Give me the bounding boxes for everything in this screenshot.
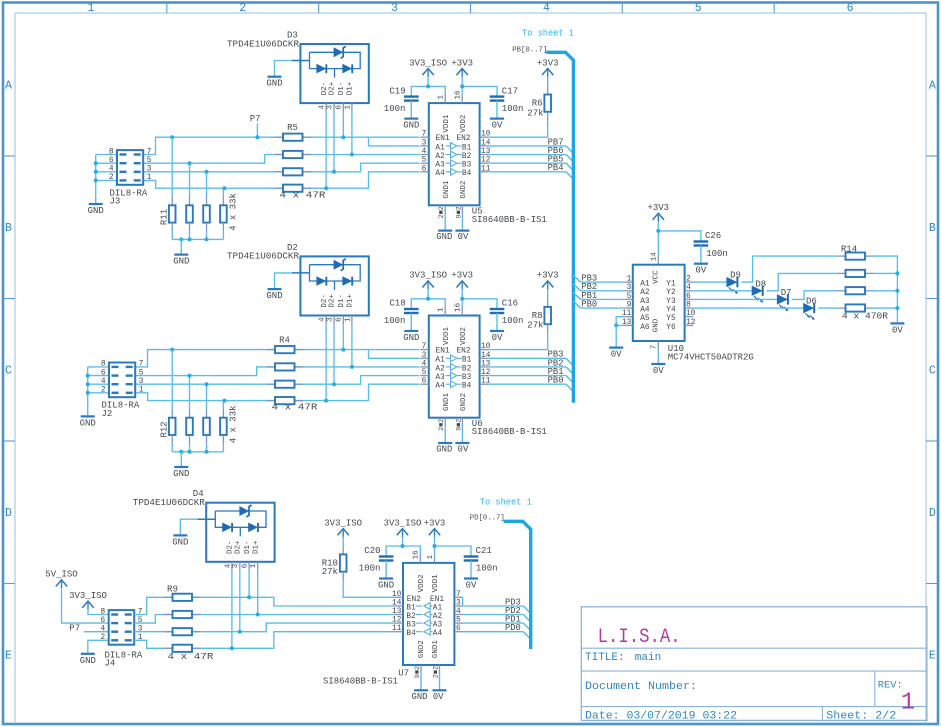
svg-text:C19: C19	[389, 86, 405, 96]
svg-text:EN1: EN1	[430, 596, 444, 604]
svg-text:1: 1	[627, 276, 632, 284]
resistor network R4 4 x 47R	[266, 349, 275, 351]
wire J4 pin3 row3 into U7 B3	[134, 623, 394, 632]
svg-text:D2+: D2+	[329, 294, 337, 308]
svg-text:C18: C18	[389, 299, 405, 309]
svg-text:8: 8	[101, 608, 106, 616]
svg-text:4: 4	[422, 360, 427, 368]
svg-text:+3V3: +3V3	[537, 271, 559, 281]
diodes inside D2	[316, 276, 326, 286]
svg-text:5: 5	[627, 293, 632, 301]
svg-text:1: 1	[344, 317, 352, 322]
svg-text:5: 5	[147, 157, 152, 165]
wire J4 pin2 to GND	[88, 640, 109, 653]
svg-text:Y1: Y1	[666, 281, 676, 289]
zener diode inside D2	[334, 260, 344, 270]
wire +3V3 to U5 pin16 and C17	[462, 86, 497, 96]
junction dots	[86, 374, 90, 378]
svg-text:U7: U7	[398, 668, 409, 678]
wire R6 to U5 EN2 pin10	[488, 120, 548, 137]
svg-text:2: 2	[101, 634, 106, 642]
svg-text:GND: GND	[266, 79, 282, 89]
D2 pin leads and numbers	[325, 316, 327, 325]
svg-text:27k: 27k	[527, 321, 543, 331]
svg-text:100n: 100n	[384, 104, 406, 114]
ground GND at D4	[180, 519, 197, 534]
svg-text:A5: A5	[640, 315, 650, 323]
svg-text:A4: A4	[435, 383, 445, 391]
isolator U7 SI8640BB-B-IS1	[403, 563, 454, 665]
svg-text:7: 7	[147, 148, 152, 156]
wire U10 A5 A6 tie to 0V	[616, 317, 624, 326]
svg-text:16: 16	[413, 550, 421, 560]
capacitor C16 100n	[490, 308, 505, 310]
svg-text:A1: A1	[435, 357, 445, 365]
wire J3 pin7 to row1	[143, 137, 419, 154]
connector J2 DIL8-RA	[109, 363, 135, 398]
svg-text:5: 5	[139, 369, 144, 377]
svg-text:3: 3	[422, 352, 427, 360]
svg-text:TPD4E1U06DCKR: TPD4E1U06DCKR	[227, 252, 300, 262]
svg-text:GND: GND	[653, 318, 661, 332]
svg-text:2: 2	[686, 276, 691, 284]
capacitor C19 100n	[411, 86, 445, 96]
svg-text:3: 3	[147, 166, 152, 174]
svg-text:5: 5	[422, 369, 427, 377]
svg-text:EN2: EN2	[457, 347, 471, 355]
wires D3 pins down to rows	[325, 112, 327, 188]
zener diode inside D3	[334, 47, 344, 57]
svg-text:VDD1: VDD1	[432, 574, 440, 593]
svg-text:7: 7	[456, 591, 461, 599]
svg-text:4: 4	[422, 148, 427, 156]
svg-text:R4: R4	[279, 336, 290, 346]
wires D2 pins down to rows	[325, 324, 327, 400]
svg-text:Y5: Y5	[666, 315, 676, 323]
svg-text:SI8640BB-B-IS1: SI8640BB-B-IS1	[472, 427, 547, 437]
svg-text:A2: A2	[435, 153, 445, 161]
resistor network R5 4 x 47R	[274, 136, 283, 138]
svg-text:+3V3: +3V3	[647, 203, 669, 213]
svg-text:1: 1	[147, 174, 152, 182]
wire row1 branch to U6 A1 pin3	[369, 350, 420, 359]
svg-text:0V: 0V	[892, 325, 903, 335]
svg-text:3: 3	[627, 284, 632, 292]
svg-text:GND2: GND2	[418, 640, 426, 658]
svg-text:A6: A6	[640, 324, 650, 332]
wire left pins to GND	[96, 154, 117, 156]
svg-text:E: E	[929, 650, 936, 663]
svg-text:PD0: PD0	[505, 623, 521, 633]
svg-text:GND: GND	[403, 333, 419, 343]
svg-text:GND: GND	[88, 206, 104, 216]
svg-text:GND: GND	[403, 121, 419, 131]
svg-text:main: main	[635, 652, 661, 664]
svg-text:4 x 470R: 4 x 470R	[842, 312, 889, 322]
svg-text:D1-: D1-	[338, 82, 346, 96]
resistor R10 27k	[342, 537, 344, 546]
svg-text:Y6: Y6	[666, 324, 676, 332]
svg-text:2: 2	[101, 387, 106, 395]
wires PB3-PB0 from bus to U10 inputs	[573, 275, 580, 282]
svg-text:C26: C26	[705, 231, 721, 241]
svg-text:16: 16	[455, 302, 463, 312]
svg-text:0V: 0V	[695, 266, 706, 276]
wire R8 to U6 EN2 pin10	[488, 333, 548, 350]
svg-text:8: 8	[686, 302, 691, 310]
svg-text:L.I.S.A.: L.I.S.A.	[598, 626, 681, 649]
capacitor C20 100n	[386, 546, 420, 557]
svg-text:4 x 47R: 4 x 47R	[272, 403, 319, 413]
svg-text:B4: B4	[406, 630, 416, 638]
svg-text:0V: 0V	[466, 581, 477, 591]
svg-text:D2-: D2-	[321, 294, 329, 308]
svg-text:10: 10	[481, 131, 491, 139]
connector J3 DIL8-RA	[117, 150, 143, 185]
svg-text:PB0: PB0	[581, 299, 597, 309]
svg-text:B2: B2	[462, 365, 472, 373]
svg-text:13: 13	[392, 608, 402, 616]
svg-text:100n: 100n	[706, 249, 728, 259]
isolator U6 SI8640BB-B-IS1	[429, 316, 480, 418]
svg-text:MC74VHCT50ADTR2G: MC74VHCT50ADTR2G	[668, 353, 754, 363]
svg-text:2: 2	[109, 174, 114, 182]
U7 GND 0V bottom grounds	[420, 674, 422, 690]
R12 bottom rail to GND	[172, 451, 223, 453]
svg-text:100n: 100n	[502, 316, 524, 326]
svg-text:7: 7	[139, 361, 144, 369]
svg-text:VCC: VCC	[653, 270, 661, 284]
svg-text:3: 3	[456, 600, 461, 608]
svg-text:B: B	[5, 222, 12, 235]
svg-text:5: 5	[695, 2, 702, 15]
svg-text:GND: GND	[80, 418, 96, 428]
svg-text:4: 4	[456, 608, 461, 616]
svg-text:VDD2: VDD2	[460, 327, 468, 345]
net stub P7	[256, 124, 258, 138]
svg-text:A4: A4	[435, 170, 445, 178]
svg-text:GND1: GND1	[432, 640, 440, 659]
svg-text:3V3_ISO: 3V3_ISO	[409, 58, 447, 68]
svg-text:B3: B3	[462, 374, 472, 382]
svg-text:VDD2: VDD2	[418, 574, 426, 592]
svg-text:R9: R9	[167, 584, 178, 594]
svg-text:6: 6	[456, 625, 461, 633]
svg-text:100n: 100n	[384, 316, 406, 326]
svg-text:A3: A3	[435, 162, 445, 170]
wire +3V3 to U10 VCC pin14 and C26	[657, 231, 659, 256]
svg-text:3: 3	[391, 2, 398, 15]
svg-text:4: 4	[319, 317, 327, 322]
svg-text:B1: B1	[462, 357, 472, 365]
svg-text:3: 3	[232, 563, 240, 568]
svg-text:B2: B2	[462, 153, 472, 161]
svg-text:C17: C17	[502, 86, 518, 96]
svg-text:J4: J4	[105, 659, 116, 669]
svg-text:B1: B1	[462, 144, 472, 152]
svg-text:GND: GND	[172, 537, 188, 547]
svg-text:1: 1	[901, 690, 915, 717]
svg-text:D7: D7	[781, 288, 792, 298]
svg-text:10: 10	[481, 343, 491, 351]
wire D9 to R14 row1	[741, 256, 837, 282]
svg-text:A3: A3	[640, 298, 650, 306]
svg-text:1: 1	[250, 563, 258, 568]
svg-text:To sheet 1: To sheet 1	[480, 498, 532, 508]
wire J2 pin3 row3 into U6 A3 pin5	[135, 376, 419, 385]
svg-text:16: 16	[455, 90, 463, 100]
svg-text:27k: 27k	[527, 108, 543, 118]
svg-text:7: 7	[422, 131, 427, 139]
svg-text:5: 5	[422, 157, 427, 165]
junction dots	[94, 161, 98, 165]
wire D7 to R14 row3	[792, 291, 837, 300]
svg-text:4: 4	[101, 626, 106, 634]
svg-text:PB[0..7]: PB[0..7]	[512, 47, 547, 55]
svg-text:P7: P7	[69, 624, 80, 634]
wire row1 branch to U5 A1 pin3	[369, 137, 420, 146]
svg-text:GND1: GND1	[443, 180, 451, 199]
svg-text:3V3_ISO: 3V3_ISO	[69, 591, 107, 601]
svg-text:14: 14	[392, 600, 402, 608]
svg-text:6: 6	[686, 293, 691, 301]
svg-text:10: 10	[392, 591, 402, 599]
svg-text:B3: B3	[462, 162, 472, 170]
svg-text:12: 12	[686, 319, 696, 327]
svg-text:3: 3	[326, 105, 334, 110]
svg-text:GND: GND	[378, 581, 394, 591]
svg-text:PB0: PB0	[548, 376, 564, 386]
U5 GND 0V bottom grounds	[444, 214, 446, 230]
svg-text:EN2: EN2	[457, 135, 471, 143]
svg-text:SI8640BB-B-IS1: SI8640BB-B-IS1	[472, 215, 547, 225]
svg-text:D1-: D1-	[338, 294, 346, 308]
svg-text:4: 4	[319, 105, 327, 110]
svg-text:5: 5	[456, 617, 461, 625]
svg-text:4 x 47R: 4 x 47R	[280, 190, 327, 200]
svg-text:Document Number:: Document Number:	[585, 681, 697, 693]
svg-text:D2+: D2+	[235, 540, 243, 554]
svg-text:C: C	[5, 365, 12, 378]
svg-text:D: D	[929, 507, 936, 520]
wires U5 B outputs to bus ('PB7', 'PB6', 'PB5', 'PB4')	[488, 145, 566, 147]
svg-text:VDD2: VDD2	[460, 115, 468, 133]
buffer U10 MC74VHCT50ADTR2G	[633, 265, 685, 341]
svg-text:A4: A4	[433, 630, 443, 638]
svg-text:D1+: D1+	[347, 294, 355, 308]
svg-text:4 x 33k: 4 x 33k	[229, 193, 239, 231]
svg-text:7: 7	[422, 343, 427, 351]
svg-text:5V_ISO: 5V_ISO	[45, 570, 77, 580]
svg-text:VDD1: VDD1	[443, 326, 451, 345]
svg-text:A1: A1	[433, 604, 443, 612]
capacitor C26 100n	[694, 240, 709, 242]
capacitor C17 100n	[490, 95, 505, 97]
resistor network R9 4 x 47R	[164, 596, 173, 598]
svg-text:TPD4E1U06DCKR: TPD4E1U06DCKR	[133, 498, 206, 508]
svg-text:4: 4	[543, 2, 550, 15]
svg-text:VDD1: VDD1	[443, 114, 451, 133]
svg-text:3V3_ISO: 3V3_ISO	[409, 271, 447, 281]
svg-text:0V: 0V	[492, 121, 503, 131]
svg-text:R6: R6	[532, 99, 543, 109]
svg-text:R11: R11	[159, 209, 169, 225]
svg-text:A2: A2	[640, 289, 650, 297]
svg-text:3: 3	[326, 317, 334, 322]
wire +3V3 to U6 pin16 and C16	[462, 299, 497, 309]
svg-text:J3: J3	[110, 197, 121, 207]
svg-text:0V: 0V	[492, 333, 503, 343]
svg-text:R12: R12	[159, 421, 169, 437]
svg-text:8: 8	[109, 148, 114, 156]
svg-text:100n: 100n	[502, 104, 524, 114]
svg-text:8: 8	[101, 361, 106, 369]
svg-text:C21: C21	[476, 546, 492, 556]
svg-text:GND 0V: GND 0V	[436, 232, 469, 242]
svg-text:B4: B4	[462, 170, 472, 178]
svg-text:J2: J2	[102, 409, 113, 419]
svg-text:GND 0V: GND 0V	[412, 692, 445, 702]
svg-text:+3V3: +3V3	[424, 518, 446, 528]
svg-text:EN1: EN1	[436, 347, 450, 355]
wire 5V_ISO to J4 pin6	[62, 588, 109, 623]
svg-text:SI8640BB-B-IS1: SI8640BB-B-IS1	[323, 677, 398, 687]
svg-text:4: 4	[224, 563, 232, 568]
svg-text:Sheet: 2/2: Sheet: 2/2	[826, 710, 896, 722]
svg-text:+3V3: +3V3	[537, 58, 559, 68]
svg-text:4: 4	[686, 284, 691, 292]
wire D6 to R14 row4	[818, 307, 837, 309]
svg-text:Date: 03/07/2019 03:22: Date: 03/07/2019 03:22	[585, 710, 737, 722]
svg-text:0V: 0V	[653, 366, 664, 376]
wire left pins to GND	[88, 366, 109, 368]
connector J4 DIL8-RA	[109, 610, 135, 645]
svg-text:A4: A4	[640, 306, 650, 314]
wire 3V3_ISO to J4 pin8	[88, 609, 109, 614]
svg-text:D2-: D2-	[321, 82, 329, 96]
wire J4 pin5 to row2 into U7 B2	[134, 615, 394, 624]
svg-text:D2+: D2+	[329, 81, 337, 95]
svg-text:To sheet 1: To sheet 1	[522, 29, 574, 39]
svg-text:1: 1	[344, 105, 352, 110]
svg-text:A1: A1	[435, 144, 445, 152]
svg-text:D: D	[5, 507, 12, 520]
svg-text:27k: 27k	[322, 567, 338, 577]
wire J3 pin3 row3 into U5 A3 pin5	[143, 163, 419, 172]
svg-text:2: 2	[239, 2, 246, 15]
svg-text:A: A	[929, 80, 936, 93]
svg-text:3V3_ISO: 3V3_ISO	[324, 518, 362, 528]
svg-text:A2: A2	[435, 365, 445, 373]
wire J4 pin7 to row1	[134, 597, 394, 614]
svg-text:B3: B3	[406, 622, 416, 630]
R11 bottom rail to GND	[172, 238, 223, 240]
wire D8 to R14 row2	[767, 273, 837, 290]
isolator U5 SI8640BB-B-IS1	[429, 103, 480, 205]
svg-text:A2: A2	[433, 613, 443, 621]
svg-text:B1: B1	[406, 604, 416, 612]
svg-text:B: B	[929, 222, 936, 235]
svg-text:6: 6	[101, 369, 106, 377]
svg-text:3V3_ISO: 3V3_ISO	[384, 518, 422, 528]
svg-text:P7: P7	[250, 114, 261, 124]
svg-text:+3V3: +3V3	[451, 271, 473, 281]
ground GND at D2	[275, 273, 292, 288]
svg-text:6: 6	[101, 617, 106, 625]
svg-text:1: 1	[438, 307, 446, 312]
svg-text:TPD4E1U06DCKR: TPD4E1U06DCKR	[227, 39, 300, 49]
svg-text:EN2: EN2	[407, 596, 421, 604]
wire J3 pin5 to row2 into U5 A2 pin4	[143, 155, 419, 164]
resistor network R11 4 x 33k pulldowns	[171, 137, 173, 197]
svg-text:1: 1	[87, 2, 94, 15]
svg-text:A1: A1	[640, 281, 650, 289]
svg-text:6: 6	[336, 105, 344, 110]
ground GND at D3	[275, 61, 292, 76]
svg-text:C: C	[929, 365, 936, 378]
svg-text:R8: R8	[532, 311, 543, 321]
diodes inside D4	[222, 523, 232, 533]
svg-text:D9: D9	[730, 271, 741, 281]
svg-text:6: 6	[109, 157, 114, 165]
svg-text:9: 9	[627, 302, 632, 310]
svg-text:+3V3: +3V3	[451, 58, 473, 68]
svg-text:A3: A3	[435, 374, 445, 382]
wire R10 to U7 EN2 pin10	[343, 580, 394, 597]
capacitor C18 100n	[411, 299, 445, 309]
wire J2 pin5 to row2 into U6 A2 pin4	[135, 367, 419, 376]
svg-text:D2-: D2-	[227, 540, 235, 554]
capacitor C21 100n	[464, 555, 479, 557]
svg-text:GND: GND	[80, 656, 96, 666]
svg-text:1: 1	[438, 95, 446, 100]
svg-text:3: 3	[422, 139, 427, 147]
wire J2 pin1 to row4 into U6 A4 pin6	[135, 384, 419, 400]
svg-text:D1+: D1+	[252, 540, 260, 554]
svg-text:GND: GND	[173, 469, 189, 479]
ground GND below J2	[81, 415, 95, 417]
svg-text:3: 3	[139, 378, 144, 386]
svg-text:11: 11	[392, 625, 402, 633]
svg-text:GND1: GND1	[443, 392, 451, 411]
svg-text:1: 1	[427, 554, 435, 559]
svg-text:GND2: GND2	[460, 181, 468, 199]
svg-text:D8: D8	[755, 279, 766, 289]
svg-text:E: E	[5, 650, 12, 663]
svg-text:6: 6	[422, 165, 427, 173]
svg-text:6: 6	[242, 563, 250, 568]
svg-text:10: 10	[686, 310, 696, 318]
svg-text:EN1: EN1	[436, 135, 450, 143]
svg-text:R5: R5	[287, 123, 298, 133]
svg-text:4: 4	[109, 166, 114, 174]
svg-text:0V: 0V	[611, 350, 622, 360]
svg-text:100n: 100n	[359, 564, 381, 574]
svg-text:4: 4	[101, 378, 106, 386]
wires U7 A outputs to bus PD	[463, 605, 524, 607]
svg-text:4 x 33k: 4 x 33k	[229, 405, 239, 443]
svg-text:7: 7	[651, 345, 659, 350]
svg-text:Y4: Y4	[666, 306, 676, 314]
wire J3 pin1 to row4 into U5 A4 pin6	[143, 172, 419, 188]
wires D4 pins down to rows	[231, 571, 233, 649]
svg-text:D1+: D1+	[347, 81, 355, 95]
svg-text:A3: A3	[433, 622, 443, 630]
svg-text:B2: B2	[406, 613, 416, 621]
svg-text:6: 6	[847, 2, 854, 15]
svg-text:4 x 47R: 4 x 47R	[168, 652, 215, 662]
wires U6 B outputs to bus ('PB3', 'PB2', 'PB1', 'PB0')	[488, 357, 566, 359]
